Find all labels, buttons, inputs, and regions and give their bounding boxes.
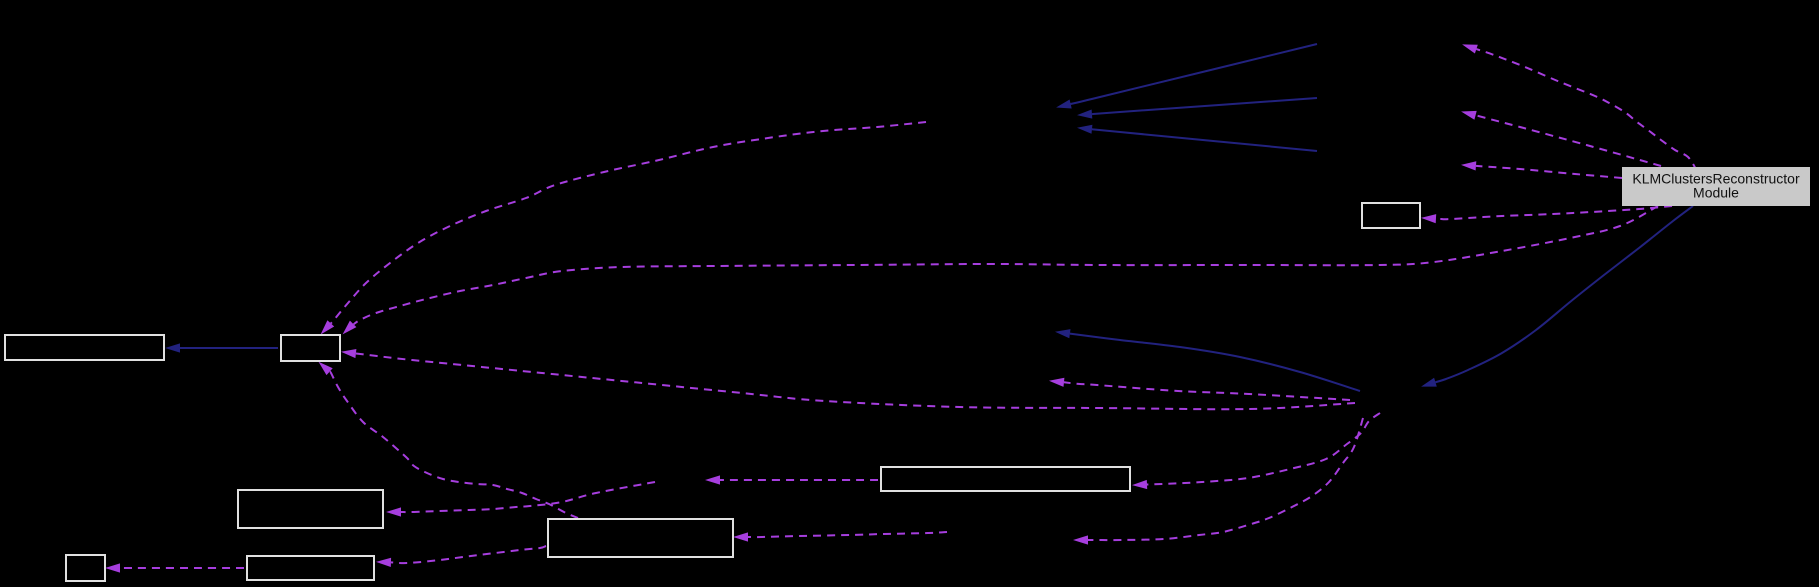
edge KLMClustersReconstructorModule to node C xyxy=(1421,206,1672,223)
edge KLMClustersReconstructorModule to invisible node (top right, arrow 2) xyxy=(1461,111,1661,166)
edge node G to node I xyxy=(376,546,546,567)
edge KLMClustersReconstructorModule to node B (top curve from invisible node) xyxy=(321,122,926,335)
node KLMClustersReconstructorModule (main grey node) xyxy=(1622,167,1810,206)
node B (small hub box) xyxy=(281,335,340,361)
edge node G to node B (bottom curve) xyxy=(319,362,579,518)
edge hub node to node F xyxy=(1132,413,1380,489)
edge invisible node to node G (right edge) xyxy=(733,532,947,542)
edge node F to invisible node (left) xyxy=(705,475,878,484)
inheritance line 3 (top, from invisible node) xyxy=(1077,125,1317,151)
inheritance edge hub node to invisible node (middle) xyxy=(1055,329,1360,391)
edge invisible node to node E xyxy=(386,482,655,517)
node A (invisible label box, far left) xyxy=(5,335,164,360)
edge node B to node A (solid inheritance) xyxy=(165,343,278,352)
node F (wide box, bottom center) xyxy=(881,467,1130,491)
edge hub node to node B (right edge, long flat line) xyxy=(341,349,1355,409)
svg-text:Module: Module xyxy=(1693,185,1739,201)
node H (small box, bottom far left) xyxy=(66,555,105,581)
edge KLMClustersReconstructorModule to invisible node (top right, arrow 3) xyxy=(1461,161,1622,178)
edge hub node to invisible node (middle, short) xyxy=(1049,378,1350,400)
inheritance line 2 (top, from invisible node) xyxy=(1077,98,1317,119)
edge KLMClustersReconstructorModule to invisible node (top right, arrow 1) xyxy=(1462,44,1697,171)
node C (small box, top right) xyxy=(1362,203,1420,228)
inheritance line 1 (top, from invisible node) xyxy=(1056,44,1317,109)
node E (box, bottom left) xyxy=(238,490,383,528)
node G (two-line box, bottom center-left) xyxy=(548,519,733,557)
edge KLMClustersReconstructorModule to node B (long swooping curve) xyxy=(343,206,1658,334)
inheritance edge KLMClustersReconstructorModule to hub node (long blue curve) xyxy=(1421,206,1693,387)
node I (box, bottom left) xyxy=(247,556,374,580)
edge hub node to invisible node (bottom middle) xyxy=(1073,418,1363,545)
edge node I to node H xyxy=(105,563,244,572)
